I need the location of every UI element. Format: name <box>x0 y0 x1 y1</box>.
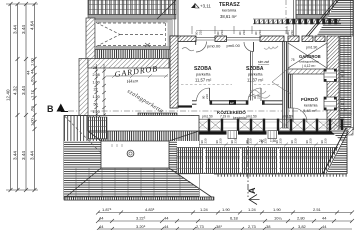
lower hip roof body <box>64 116 199 200</box>
svg-text:1.20: 1.20 <box>93 95 100 99</box>
svg-text:230: 230 <box>249 138 253 143</box>
right eave horizontal hatch <box>339 0 353 36</box>
svg-text:+3,11: +3,11 <box>200 4 211 9</box>
svg-text:3.44: 3.44 <box>21 151 26 160</box>
door threshold terrace door 2 <box>227 36 261 38</box>
window size pairs row <box>185 138 328 143</box>
ceiling break lines szoba2 <box>272 66 291 82</box>
porch ridge dashed lines <box>96 23 166 47</box>
svg-text:1.20: 1.20 <box>93 110 100 114</box>
svg-text:230: 230 <box>264 138 268 143</box>
svg-text:50: 50 <box>94 103 98 107</box>
svg-text:parketta: parketta <box>196 72 211 77</box>
svg-text:szalagparketta: szalagparketta <box>299 60 319 64</box>
svg-text:,60: ,60 <box>30 77 35 83</box>
left unit west wall <box>79 59 88 119</box>
svg-text:44: 44 <box>99 216 104 221</box>
svg-text:1.87⁵: 1.87⁵ <box>102 207 112 212</box>
hip line in batten band <box>157 0 176 19</box>
svg-text:1.90: 1.90 <box>341 108 347 112</box>
svg-text:1.12: 1.12 <box>30 89 35 98</box>
roof east band <box>169 141 177 168</box>
window posts <box>182 119 343 132</box>
dim row 1 <box>96 211 354 215</box>
svg-text:44: 44 <box>26 70 31 75</box>
left unit south wall <box>107 117 177 129</box>
svg-text:9,48 m²: 9,48 m² <box>303 108 317 113</box>
szoba1 corridor door leaf + swing <box>197 88 210 101</box>
north wall gardrob piers <box>288 36 299 42</box>
section line A (dash-dot vertical) <box>247 138 249 197</box>
svg-text:38,61 m²: 38,61 m² <box>220 14 237 19</box>
svg-text:60: 60 <box>341 69 345 73</box>
terrace railing <box>253 19 341 24</box>
porch eave frame <box>95 20 172 50</box>
door threshold terrace door 1 <box>196 36 215 38</box>
svg-text:1.90: 1.90 <box>222 207 231 212</box>
stair treads block <box>138 113 177 121</box>
dim row 3 <box>96 227 352 231</box>
svg-text:3.44: 3.44 <box>13 25 18 34</box>
svg-text:2,80: 2,80 <box>297 216 306 221</box>
inner dim column of left unit <box>95 64 106 118</box>
pencil scribbles in szoba2 <box>250 46 278 98</box>
svg-text:GARDROB: GARDROB <box>299 54 321 59</box>
lattice X cells <box>183 120 342 131</box>
svg-text:210: 210 <box>205 94 209 99</box>
svg-text:B: B <box>47 104 54 114</box>
svg-text:44: 44 <box>164 216 169 221</box>
wall corner block SE <box>344 128 353 136</box>
svg-text:230: 230 <box>234 138 238 143</box>
east exterior wall <box>327 36 339 132</box>
batten band top right <box>296 0 337 15</box>
svg-text:210: 210 <box>290 30 294 35</box>
svg-text:230: 230 <box>279 138 283 143</box>
white cut right of SE hip <box>178 175 199 189</box>
west wall strip of porch <box>86 18 95 61</box>
east wall window 1 <box>324 69 337 82</box>
pm window labels <box>184 115 293 143</box>
svg-text:FÜRDŐ: FÜRDŐ <box>301 96 318 103</box>
east wall window 2 <box>324 97 337 110</box>
svg-text:75: 75 <box>291 58 295 62</box>
svg-text:1.00: 1.00 <box>30 57 35 66</box>
svg-text:1.90: 1.90 <box>273 207 282 212</box>
window rails <box>177 119 344 131</box>
partition szoba1/szoba2 <box>249 52 251 101</box>
svg-text:230: 230 <box>324 138 328 143</box>
svg-text:230: 230 <box>309 138 313 143</box>
svg-text:| 4,12 m²: | 4,12 m² <box>302 64 316 68</box>
west wall of szoba1 <box>170 36 178 108</box>
svg-text:sim zwl: sim zwl <box>258 60 269 64</box>
svg-text:20: 20 <box>93 66 97 70</box>
eave teeth bottom <box>64 197 214 200</box>
svg-text:1.00: 1.00 <box>30 117 35 126</box>
svg-text:11,57 m²: 11,57 m² <box>195 78 212 83</box>
svg-text:3,82: 3,82 <box>298 224 307 229</box>
furdo door leaf + swing <box>293 108 307 122</box>
svg-text:1.24: 1.24 <box>248 207 257 212</box>
svg-text:4.64: 4.64 <box>30 21 35 30</box>
svg-text:3.44: 3.44 <box>30 151 35 160</box>
mid ticks <box>16 57 20 61</box>
north wall pier <box>215 36 227 42</box>
svg-text:3.44: 3.44 <box>21 25 26 34</box>
svg-text:parketta: parketta <box>248 72 263 77</box>
bottom tick row <box>9 188 13 192</box>
svg-text:pm0.00: pm0.00 <box>207 44 221 49</box>
szoba2 corridor door leaf + swing <box>248 88 261 101</box>
svg-text:230: 230 <box>294 138 298 143</box>
door size labels above terrace wall <box>195 30 295 35</box>
terrace door swing arcs <box>196 42 207 53</box>
right roof hip triangle <box>325 130 347 174</box>
svg-text:,60: ,60 <box>30 106 35 112</box>
hip ridge double line <box>308 0 339 37</box>
terrace centre dash-dot line <box>285 0 287 34</box>
svg-text:3.44: 3.44 <box>21 86 26 95</box>
hip wedge <box>317 0 340 36</box>
terrace west edge <box>177 0 179 36</box>
svg-text:pm1.90: pm1.90 <box>306 46 317 50</box>
roof batten band (top) <box>88 0 176 15</box>
svg-text:kerámia: kerámia <box>222 8 237 13</box>
svg-text:2.51: 2.51 <box>313 207 322 212</box>
east window dim labels <box>340 63 352 114</box>
x mark <box>145 43 150 47</box>
black sill band <box>183 131 344 134</box>
svg-text:44: 44 <box>164 224 169 229</box>
roof south band <box>64 168 199 197</box>
roof north band <box>88 131 199 141</box>
main roof batten band (centre) <box>177 148 347 174</box>
hip lines <box>88 131 101 141</box>
svg-text:pm0.00: pm0.00 <box>227 43 241 48</box>
top tick row <box>9 2 13 6</box>
svg-text:7,19 m: 7,19 m <box>220 115 230 119</box>
svg-text:2.08: 2.08 <box>93 73 100 77</box>
svg-text:44: 44 <box>99 224 104 229</box>
dashed valley NW <box>65 116 102 153</box>
corridor north wall <box>178 105 192 107</box>
svg-text:22: 22 <box>94 88 98 92</box>
north wall segment west <box>170 36 196 42</box>
svg-text:4.83⁵: 4.83⁵ <box>145 207 155 212</box>
svg-text:2,73: 2,73 <box>248 224 257 229</box>
svg-text:90: 90 <box>341 102 345 106</box>
level marker flag +3,11 <box>191 4 195 9</box>
svg-text:44: 44 <box>322 216 327 221</box>
right margin eave band <box>340 36 351 128</box>
svg-text:kerámia: kerámia <box>304 104 318 108</box>
svg-text:38¹: 38¹ <box>216 224 222 229</box>
facade dim line <box>180 143 340 147</box>
svg-text:10¼: 10¼ <box>274 216 282 221</box>
svg-text:90: 90 <box>341 74 345 78</box>
svg-text:pm1.50: pm1.50 <box>202 115 213 119</box>
svg-text:60: 60 <box>341 97 345 101</box>
dim line 12.40 <box>6 2 38 192</box>
section arrow B <box>57 104 66 112</box>
svg-text:230: 230 <box>219 138 223 143</box>
handwriting squiggle near west wall <box>182 48 194 51</box>
small marks in panel <box>112 144 122 147</box>
svg-text:11,37 m²: 11,37 m² <box>247 78 264 83</box>
svg-text:3.22⁵: 3.22⁵ <box>136 216 146 221</box>
room GARDROB with cross brace <box>288 43 327 68</box>
svg-text:38: 38 <box>266 224 271 229</box>
svg-text:1.24: 1.24 <box>200 207 209 212</box>
roof west band <box>64 141 101 168</box>
roof corner grid block <box>88 117 107 139</box>
dim row 2 <box>96 219 354 223</box>
right roof eave <box>216 175 347 177</box>
wall west of furdo <box>288 74 293 108</box>
door boxes in gaps <box>228 131 237 139</box>
svg-text:12.40: 12.40 <box>6 89 11 101</box>
svg-text:4.32: 4.32 <box>13 86 18 95</box>
svg-text:pm1.50: pm1.50 <box>246 115 257 119</box>
partition gardrob/furdo <box>288 69 327 74</box>
partition szoba2/gardrob <box>283 42 289 129</box>
section line B-B (dash-dot) <box>68 110 352 112</box>
svg-text:3.20⁵: 3.20⁵ <box>136 224 146 229</box>
svg-text:EP: EP <box>230 101 234 105</box>
svg-text:1.00: 1.00 <box>93 81 100 85</box>
roof north edge jog <box>64 115 88 117</box>
szoba1 door size 90/210 <box>202 94 210 99</box>
svg-text:230: 230 <box>204 138 208 143</box>
svg-text:A: A <box>247 187 257 194</box>
chimney <box>127 150 134 157</box>
ridge panel <box>101 141 169 168</box>
svg-text:3.44: 3.44 <box>13 151 18 160</box>
terrace east edge <box>293 0 295 36</box>
svg-text:44: 44 <box>322 224 327 229</box>
inner top dim ticks <box>106 74 168 78</box>
north wall segment centre <box>260 36 284 42</box>
downpipe gaps <box>203 149 205 173</box>
corridor west dim line <box>157 115 177 117</box>
left unit north wall <box>88 59 169 69</box>
eave tooth strip <box>64 197 214 200</box>
svg-text:6,18: 6,18 <box>230 216 239 221</box>
porch lower batten band <box>95 50 170 59</box>
svg-text:pm1.50: pm1.50 <box>282 115 293 119</box>
svg-text:2,73: 2,73 <box>196 224 205 229</box>
